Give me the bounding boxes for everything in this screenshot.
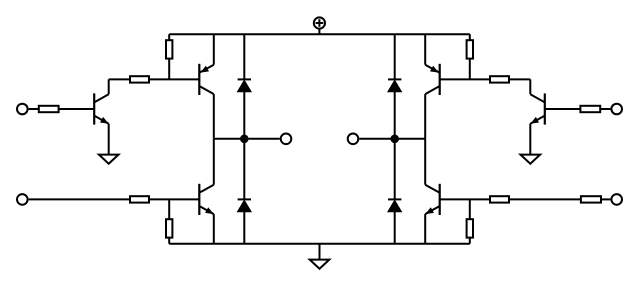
wire — [600, 108, 610, 110]
transistor Q3 — [199, 184, 214, 215]
wire — [440, 198, 490, 200]
wire — [440, 78, 490, 80]
positive supply V+ — [314, 17, 325, 34]
wire — [29, 198, 130, 200]
wire top supply rail — [169, 33, 470, 35]
transistor Q4 — [530, 93, 545, 124]
diode D1 — [238, 34, 252, 139]
wire — [424, 214, 426, 244]
resistor R9 — [490, 196, 509, 202]
wire — [149, 78, 199, 80]
resistor R11 — [467, 199, 473, 243]
resistor R2 — [130, 76, 149, 82]
node junction — [241, 136, 248, 143]
wire — [509, 78, 530, 80]
wire — [108, 124, 110, 155]
wire — [529, 79, 531, 94]
node junction — [391, 136, 398, 143]
wire — [213, 139, 215, 185]
transistor Q1 — [94, 93, 109, 124]
wire — [601, 198, 610, 200]
wire — [424, 94, 426, 139]
resistor R10 — [581, 196, 601, 202]
ground — [99, 155, 119, 164]
terminal IN1 (left upper input) — [17, 104, 28, 115]
resistor R4 — [130, 196, 149, 202]
ground — [521, 155, 541, 164]
wire — [509, 198, 581, 200]
negative supply rail symbol — [310, 244, 330, 269]
diode D3 — [388, 34, 402, 139]
wire — [59, 108, 95, 110]
wire output left — [214, 138, 280, 140]
transistor Q5 — [425, 64, 440, 95]
wire — [149, 198, 199, 200]
terminal OUT2 — [348, 134, 359, 145]
wire — [109, 78, 130, 80]
terminal OUT1 — [281, 134, 292, 145]
terminal IN4 (right lower input) — [611, 194, 622, 205]
wire output right — [359, 138, 425, 140]
resistor R7 — [490, 76, 509, 82]
wire bottom supply rail — [169, 243, 470, 245]
resistor R5 — [166, 199, 172, 243]
terminal IN3 (right upper input) — [611, 104, 622, 115]
terminal IN2 (left lower input) — [17, 194, 28, 205]
wire — [108, 79, 110, 94]
diode D2 — [238, 139, 252, 244]
resistor R8 — [467, 34, 473, 79]
diode D4 — [388, 139, 402, 244]
resistor R3 — [166, 34, 172, 79]
wire — [213, 94, 215, 139]
wire — [213, 34, 215, 64]
transistor Q6 — [425, 184, 440, 215]
transistor Q2 — [199, 64, 214, 95]
wire — [424, 139, 426, 185]
wire — [213, 214, 215, 244]
resistor R1 — [39, 106, 59, 112]
wire — [29, 108, 39, 110]
resistor R6 — [580, 106, 600, 112]
wire — [545, 108, 581, 110]
wire — [529, 124, 531, 155]
wire — [424, 34, 426, 64]
